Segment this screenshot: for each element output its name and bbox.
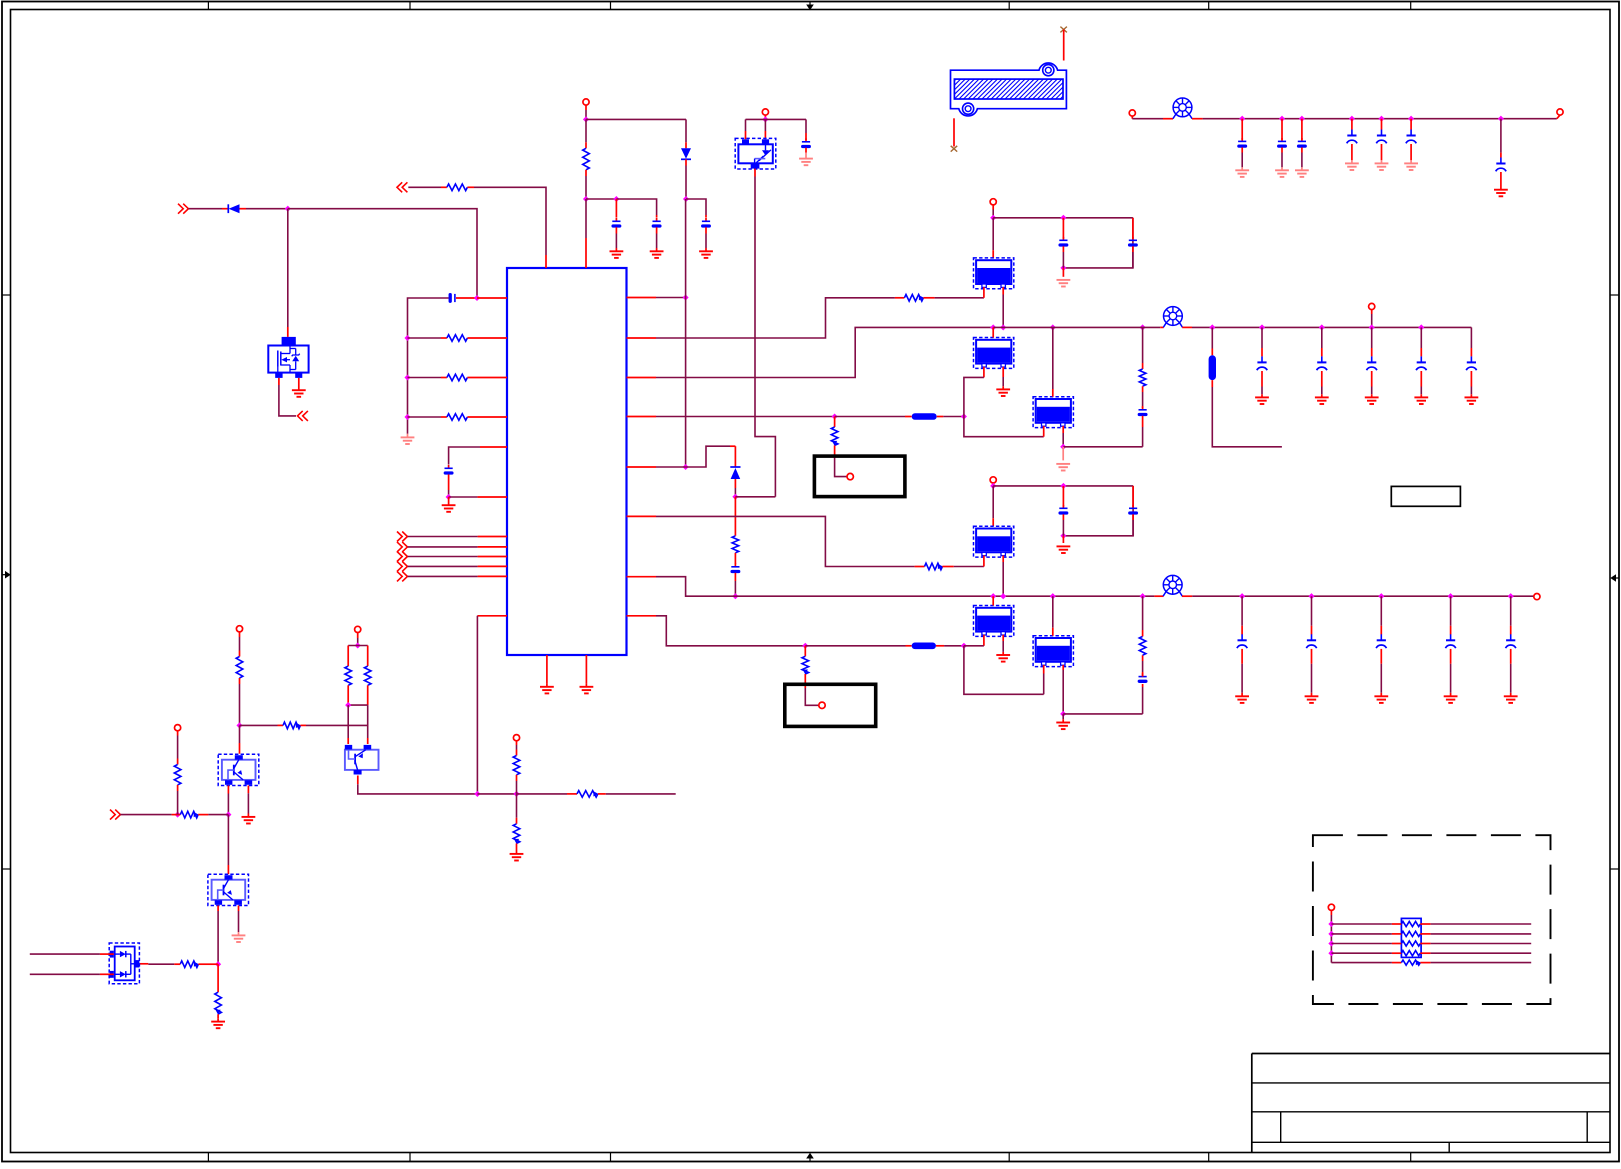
wire bbox=[1062, 252, 1064, 268]
resistor R13 bbox=[236, 657, 243, 679]
junction bbox=[236, 722, 242, 728]
ground (C6) bbox=[799, 159, 813, 166]
wire bbox=[448, 490, 450, 497]
IC pin B2 bbox=[585, 655, 587, 683]
ground (C4) bbox=[650, 251, 664, 258]
junction bbox=[1239, 116, 1245, 122]
ground bbox=[1315, 397, 1329, 404]
main IC U1 bbox=[507, 268, 627, 655]
junction bbox=[1060, 265, 1066, 271]
module U5 pin bbox=[983, 555, 985, 566]
wire bbox=[477, 793, 516, 795]
pin bbox=[1142, 672, 1144, 677]
sheet entry port P1 << bbox=[397, 182, 407, 192]
junction bbox=[215, 961, 221, 967]
pin bbox=[685, 159, 687, 165]
pin bbox=[1241, 147, 1243, 152]
wire bbox=[686, 446, 730, 467]
pin bbox=[1281, 147, 1283, 152]
pin bbox=[1450, 626, 1452, 635]
pin bbox=[441, 377, 447, 379]
resistor R2 bbox=[447, 335, 468, 342]
wire bbox=[992, 486, 994, 518]
capacitor C (x=1510.7,y=640) bbox=[1506, 634, 1516, 648]
capacitor C (x=1133.1,y=508) bbox=[1129, 505, 1137, 513]
wire bbox=[1002, 377, 1004, 386]
resistor R8 bbox=[732, 536, 739, 553]
ground (U7) bbox=[1056, 723, 1070, 730]
ground stem bbox=[1301, 167, 1303, 170]
wire bbox=[1062, 714, 1064, 719]
junction bbox=[513, 791, 519, 797]
title block bbox=[1252, 1054, 1610, 1153]
junction bbox=[404, 335, 410, 341]
pin bbox=[1392, 933, 1402, 935]
pin bbox=[177, 731, 179, 736]
IC pin R6 bbox=[627, 515, 657, 517]
ground stem bbox=[1002, 652, 1004, 655]
wire bbox=[208, 814, 228, 816]
pin bbox=[585, 142, 587, 148]
wire bbox=[449, 447, 480, 465]
wire bbox=[656, 297, 686, 299]
callout box TP2 bbox=[785, 684, 876, 726]
capacitor C (x=1063.4,y=240) bbox=[1059, 237, 1067, 245]
pin bbox=[585, 170, 587, 176]
wire bbox=[408, 536, 478, 538]
pin bbox=[705, 215, 707, 218]
wire bbox=[1301, 153, 1303, 168]
pin bbox=[1500, 172, 1502, 187]
resistor R5 bbox=[583, 148, 590, 170]
junction bbox=[1060, 215, 1066, 221]
wire bbox=[177, 736, 179, 759]
pin bbox=[1261, 371, 1263, 387]
IC pin R1 bbox=[627, 297, 657, 299]
ground stem bbox=[1062, 719, 1064, 722]
pin bbox=[936, 645, 944, 647]
wire bbox=[935, 297, 984, 299]
no-connect X bbox=[951, 146, 958, 152]
capacitor C (x=1450.6,y=640) bbox=[1445, 634, 1455, 648]
pin bbox=[1450, 649, 1452, 664]
wire bbox=[616, 199, 656, 215]
junction bbox=[961, 413, 967, 419]
junction bbox=[404, 374, 410, 380]
ground stem bbox=[448, 497, 450, 505]
pin bbox=[441, 186, 447, 188]
transistor Q2 bbox=[345, 745, 379, 775]
junction bbox=[683, 464, 689, 470]
pin bbox=[1062, 514, 1064, 520]
junction bbox=[1000, 593, 1006, 599]
wire bbox=[408, 186, 441, 188]
pin bbox=[1182, 326, 1192, 328]
wire bbox=[279, 385, 296, 416]
pin bbox=[1381, 119, 1383, 130]
junction bbox=[1418, 324, 1424, 330]
module U2 pin bbox=[983, 287, 985, 298]
junction bbox=[1299, 116, 1305, 122]
pin bbox=[1241, 649, 1243, 664]
capacitor C (x=1500) bbox=[1496, 158, 1506, 172]
ground bbox=[1504, 696, 1518, 703]
capacitor C7 bbox=[731, 563, 739, 571]
junction bbox=[1060, 533, 1066, 539]
diode D2 bbox=[681, 148, 691, 159]
ground stem bbox=[1371, 394, 1373, 397]
pin bbox=[239, 678, 241, 684]
pin bbox=[347, 738, 349, 744]
pin bbox=[1510, 626, 1512, 635]
wire bbox=[408, 546, 478, 548]
wire bbox=[586, 118, 686, 120]
pin bbox=[516, 843, 518, 850]
border tick right bbox=[1610, 294, 1619, 296]
wire bbox=[1431, 933, 1532, 935]
pin bbox=[1392, 962, 1402, 964]
ferrite bead FB2 bbox=[1163, 307, 1182, 328]
ground stem bbox=[1380, 693, 1382, 697]
power port PWR5 bbox=[990, 199, 996, 205]
pin bbox=[198, 963, 212, 965]
pin bbox=[239, 743, 241, 754]
wire bbox=[1450, 596, 1452, 626]
wire bbox=[1063, 713, 1142, 715]
junction bbox=[1050, 593, 1056, 599]
pin bbox=[915, 566, 925, 568]
ground bbox=[1375, 163, 1389, 170]
module U4 top pin bbox=[1052, 389, 1054, 397]
wire bbox=[1043, 674, 1045, 695]
diode D3 bbox=[730, 467, 740, 479]
pin bbox=[1241, 119, 1243, 140]
junction bbox=[355, 642, 361, 648]
capacitor C (x=1381.5) bbox=[1376, 130, 1386, 144]
wire bbox=[474, 187, 546, 255]
ground stem bbox=[1381, 160, 1383, 163]
pin bbox=[1510, 649, 1512, 664]
pin bbox=[1261, 348, 1263, 356]
pin bbox=[174, 963, 180, 965]
wire bbox=[1380, 664, 1382, 693]
wire bbox=[1203, 118, 1557, 120]
wire bbox=[1002, 562, 1004, 596]
power port PWR7 bbox=[990, 477, 996, 483]
pin bbox=[222, 208, 228, 210]
capacitor C5 bbox=[702, 218, 710, 226]
module U3 bbox=[974, 338, 1014, 369]
junction bbox=[832, 413, 838, 419]
wire bbox=[656, 327, 993, 377]
pin bbox=[177, 785, 179, 791]
pin bbox=[1281, 119, 1283, 140]
wire bbox=[1002, 641, 1004, 652]
ground stem bbox=[546, 683, 548, 686]
wire bbox=[1192, 595, 1534, 597]
pin bbox=[1392, 923, 1402, 925]
wire bbox=[348, 645, 368, 647]
pin bbox=[1142, 684, 1144, 687]
transistor Q5 symbol bbox=[755, 144, 771, 163]
pin bbox=[1142, 630, 1144, 636]
pin bbox=[937, 416, 944, 418]
transistor Q1 bbox=[218, 754, 259, 785]
capacitor C2 bbox=[445, 465, 453, 473]
wire bbox=[993, 217, 1133, 219]
pin bbox=[300, 724, 306, 726]
wire bbox=[1331, 943, 1392, 945]
pin bbox=[172, 814, 181, 816]
pin bbox=[1062, 246, 1064, 252]
wire bbox=[1371, 387, 1373, 395]
ground stem bbox=[1351, 160, 1353, 163]
transistor Q4 pad (gnd) bbox=[295, 373, 302, 378]
wire bbox=[177, 791, 179, 815]
ground stem bbox=[705, 248, 707, 251]
capacitor C (x=1411.1) bbox=[1406, 130, 1416, 144]
wire bbox=[993, 485, 1133, 487]
pin bbox=[1410, 119, 1412, 130]
pin bbox=[1371, 310, 1373, 314]
wire bbox=[1211, 327, 1213, 348]
pin bbox=[1131, 116, 1133, 119]
resistor R14 bbox=[283, 722, 301, 729]
pin bbox=[567, 793, 577, 795]
test point TP1 ring bbox=[847, 473, 853, 479]
IC pin R4 bbox=[627, 416, 657, 418]
pin bbox=[516, 775, 518, 781]
module U6 pin bbox=[1002, 635, 1004, 641]
pin bbox=[467, 186, 474, 188]
pin bbox=[1132, 514, 1134, 520]
pin bbox=[895, 297, 905, 299]
pin bbox=[656, 215, 658, 218]
junction bbox=[345, 702, 351, 708]
junction bbox=[1508, 593, 1514, 599]
border arrow top bbox=[806, 2, 814, 11]
ground stem bbox=[1062, 536, 1064, 543]
junction bbox=[1000, 324, 1006, 330]
pin bbox=[238, 906, 240, 912]
fuse F1 top lead bbox=[1063, 30, 1065, 61]
sheet entry port H3 >> bbox=[397, 552, 407, 562]
IC pin L11 bbox=[478, 575, 507, 577]
pin bbox=[1182, 595, 1192, 597]
ground bbox=[1345, 163, 1359, 170]
wire bbox=[615, 234, 617, 249]
pin bbox=[1142, 363, 1144, 369]
junction bbox=[446, 494, 452, 500]
pin bbox=[1420, 943, 1430, 945]
module U6 bbox=[974, 606, 1014, 637]
wire bbox=[1321, 327, 1323, 348]
pin bbox=[239, 651, 241, 657]
wire bbox=[1132, 252, 1134, 268]
junction bbox=[1349, 116, 1355, 122]
ground (R19) bbox=[510, 854, 524, 861]
wire bbox=[239, 637, 241, 651]
pin bbox=[805, 148, 807, 153]
ground bbox=[1275, 170, 1289, 177]
pin bbox=[1062, 218, 1064, 239]
ground stem bbox=[656, 248, 658, 251]
junction bbox=[285, 206, 291, 212]
pin bbox=[1371, 371, 1373, 387]
wire bbox=[449, 496, 478, 498]
power port PWR2 bbox=[762, 109, 768, 115]
capacitor C (x=1242.2) bbox=[1238, 138, 1246, 146]
junction bbox=[1140, 324, 1146, 330]
ground stem bbox=[247, 814, 249, 817]
capacitor C (x=1301.9) bbox=[1298, 138, 1306, 146]
wire bbox=[1450, 664, 1452, 693]
pin bbox=[1420, 933, 1430, 935]
wire bbox=[408, 416, 442, 418]
wire bbox=[227, 815, 229, 865]
resistor RN1-3 bbox=[1401, 941, 1420, 946]
pin bbox=[1142, 386, 1144, 392]
pin bbox=[1420, 371, 1422, 387]
pin bbox=[615, 227, 617, 233]
power port PWR8 bbox=[1534, 594, 1540, 600]
wire bbox=[944, 645, 964, 647]
junction bbox=[1060, 444, 1066, 450]
pin bbox=[754, 169, 756, 177]
wire bbox=[516, 781, 518, 794]
border tick top bbox=[610, 2, 612, 10]
pin bbox=[1470, 348, 1472, 356]
pin bbox=[1142, 655, 1144, 661]
junction bbox=[613, 196, 619, 202]
pin bbox=[1371, 348, 1373, 356]
pin bbox=[441, 337, 447, 339]
pin bbox=[1380, 649, 1382, 664]
border tick bottom bbox=[207, 1153, 209, 1162]
transistor Q4 body bbox=[268, 346, 308, 373]
junction bbox=[990, 593, 996, 599]
power port PWR12 bbox=[175, 725, 181, 731]
wire bbox=[586, 198, 616, 200]
wire bbox=[408, 575, 478, 577]
transistor Q5 body bbox=[738, 144, 772, 163]
wire bbox=[954, 566, 984, 568]
ground stem bbox=[407, 434, 409, 438]
pin bbox=[1301, 119, 1303, 140]
transistor Q5 pad 3 bbox=[751, 163, 760, 168]
border arrow left bbox=[2, 571, 11, 579]
wire bbox=[408, 556, 478, 558]
pin bbox=[287, 327, 289, 337]
ground (M1 caps) bbox=[1057, 280, 1071, 287]
pin bbox=[598, 793, 606, 795]
wire bbox=[246, 208, 288, 210]
resistor R12 bbox=[1139, 636, 1146, 655]
module U7 bbox=[1033, 636, 1073, 667]
border tick bottom bbox=[1410, 1153, 1412, 1162]
pin bbox=[1132, 486, 1134, 507]
wire bbox=[30, 953, 100, 955]
wire bbox=[148, 963, 174, 965]
ground stem bbox=[1500, 187, 1502, 190]
pin bbox=[1241, 626, 1243, 635]
wire bbox=[120, 814, 171, 816]
wire bbox=[686, 199, 706, 215]
ground bbox=[1374, 696, 1388, 703]
pin bbox=[734, 446, 736, 467]
pin bbox=[1142, 406, 1144, 408]
pin bbox=[992, 483, 994, 486]
capacitor C6 bbox=[802, 138, 810, 146]
power port PWR4 bbox=[1557, 109, 1563, 115]
border tick bottom bbox=[1008, 1153, 1010, 1162]
pin bbox=[1142, 416, 1144, 427]
power port PWR13 bbox=[1328, 904, 1334, 910]
wire bbox=[1371, 314, 1373, 327]
pin bbox=[212, 963, 218, 965]
wire bbox=[1142, 661, 1144, 672]
sheet entry port P4 >> bbox=[110, 810, 120, 820]
wire bbox=[992, 210, 994, 218]
power port PWR9 bbox=[236, 626, 242, 632]
wire bbox=[1002, 295, 1004, 328]
IC pin L12 bbox=[477, 615, 507, 617]
junction bbox=[1308, 593, 1314, 599]
ground stem bbox=[1241, 693, 1243, 697]
pin bbox=[278, 724, 284, 726]
ground stem bbox=[1321, 394, 1323, 397]
ground stem bbox=[1510, 693, 1512, 697]
pin bbox=[1380, 626, 1382, 635]
wire bbox=[993, 326, 1160, 328]
wire bbox=[408, 337, 442, 339]
junction bbox=[1369, 324, 1375, 330]
ground (U4) bbox=[1056, 464, 1070, 471]
capacitor C (x=1371.7,y=362) bbox=[1367, 356, 1377, 370]
pin bbox=[1163, 118, 1173, 120]
ground stem bbox=[1470, 394, 1472, 397]
ground (Q3) bbox=[232, 935, 246, 942]
wire bbox=[1371, 327, 1373, 348]
module U5 pin bbox=[1002, 555, 1004, 562]
sheet entry port H4 >> bbox=[397, 561, 407, 571]
junction bbox=[1060, 711, 1066, 717]
capacitor C (x=1321.8,y=362) bbox=[1317, 356, 1327, 370]
pin bbox=[347, 646, 349, 667]
capacitor C (x=1262,y=362) bbox=[1257, 356, 1267, 370]
power port PWR11 bbox=[513, 735, 519, 741]
wire bbox=[685, 199, 687, 467]
pin bbox=[456, 297, 477, 299]
pin bbox=[347, 685, 349, 705]
pin bbox=[1470, 371, 1472, 387]
ground (Q1) bbox=[242, 817, 256, 824]
wire bbox=[656, 416, 835, 418]
wire bbox=[943, 416, 964, 418]
transistor Q3 bbox=[208, 874, 249, 905]
wire bbox=[1063, 446, 1142, 448]
ground (IC B2) bbox=[580, 687, 594, 694]
wire bbox=[1510, 596, 1512, 626]
pin bbox=[247, 786, 249, 794]
pin bbox=[1211, 380, 1213, 387]
capacitor C (x=1242.1,y=640) bbox=[1237, 634, 1247, 648]
junction bbox=[1448, 593, 1454, 599]
pin bbox=[367, 646, 369, 667]
wire bbox=[517, 793, 568, 795]
wire bbox=[1241, 153, 1243, 168]
ground stem bbox=[615, 248, 617, 251]
